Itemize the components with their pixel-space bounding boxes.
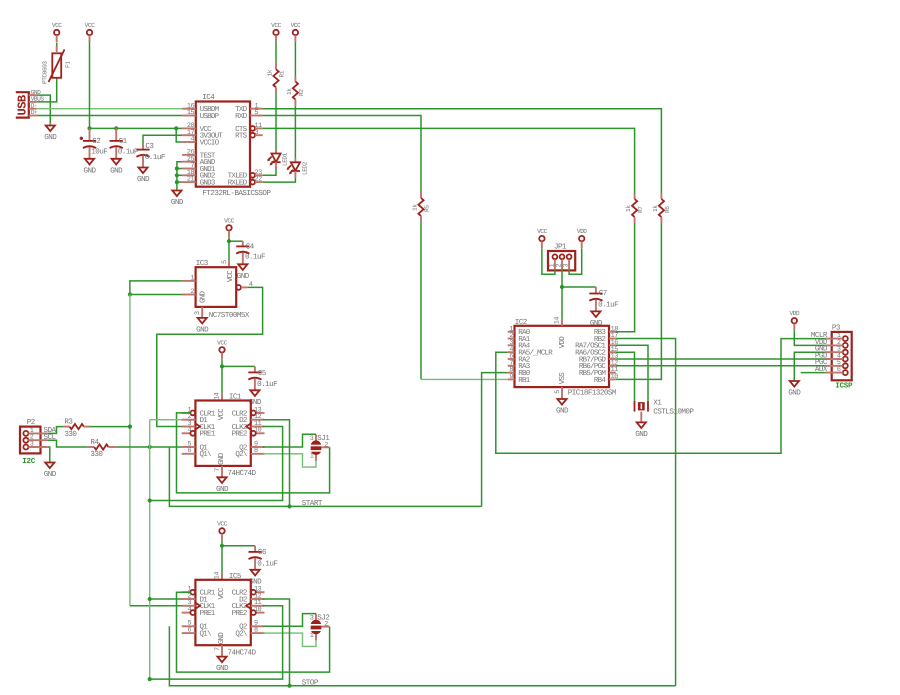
junction IC3 inputs — [128, 292, 132, 296]
wire AUX stub net — [801, 372, 825, 374]
svg-text:GND: GND — [171, 198, 184, 207]
svg-text:PRE2: PRE2 — [232, 430, 247, 439]
svg-text:10: 10 — [611, 373, 619, 381]
LED LED1 — [267, 150, 288, 170]
label net SDA — [44, 426, 57, 435]
IC5 pin 11 CLK2 — [232, 599, 265, 611]
wire P2 pin3 to ground — [47, 447, 50, 463]
svg-text:VCC: VCC — [52, 22, 62, 29]
svg-text:R7: R7 — [637, 206, 644, 213]
wire to C7 — [562, 286, 596, 288]
wire R1 to LED1 — [275, 94, 277, 150]
IC2 pin 13 RB7/PGD — [579, 353, 618, 365]
IC1 pin 10 PRE2 — [232, 427, 265, 439]
wire IC1 D2 to START net — [263, 420, 290, 507]
supply VCC at JP1 — [537, 228, 547, 248]
svg-text:LED2: LED2 — [301, 161, 308, 175]
IC5 pin 3 CLK1 — [182, 599, 216, 611]
wire JP1 pin2 to PIC VDD — [561, 270, 563, 319]
wire VDD to JP1 pin3 — [569, 248, 582, 274]
svg-text:Q2\: Q2\ — [235, 450, 248, 459]
wire IC5 Q2 to SJ2 pad3 — [263, 614, 316, 627]
junction JP1/C7 — [560, 285, 564, 289]
svg-text:C6: C6 — [258, 548, 267, 557]
svg-text:3: 3 — [563, 264, 571, 268]
wire MCLR net — [496, 339, 825, 454]
svg-text:GND: GND — [110, 166, 123, 175]
IC4 pin 22 RXLED — [228, 176, 263, 188]
svg-text:1k: 1k — [625, 205, 632, 212]
svg-text:0.1uF: 0.1uF — [598, 300, 619, 309]
ground group wires at IC4 (AGND GND1 GND2 GND3) — [177, 162, 182, 191]
ground GND at P2 — [44, 463, 57, 480]
svg-text:9: 9 — [509, 373, 513, 381]
IC1 pin 5 Q1 — [182, 440, 209, 452]
IC2 pin 10 RB4 — [594, 373, 618, 385]
svg-text:USBDP: USBDP — [200, 112, 220, 121]
IC U-IC5 74HC74 box — [195, 572, 256, 658]
ground GND at C2 — [83, 159, 96, 176]
svg-text:Q1\: Q1\ — [200, 630, 213, 639]
svg-text:VCC: VCC — [217, 339, 227, 346]
ground GND at IC2 — [556, 399, 569, 416]
label net SCL — [44, 433, 57, 442]
svg-text:0.1uF: 0.1uF — [257, 560, 278, 569]
ground GND at USB — [44, 123, 57, 143]
IC4 pin 23 TXLED — [228, 169, 263, 181]
svg-text:R1: R1 — [279, 70, 286, 77]
svg-text:Q1\: Q1\ — [200, 450, 213, 459]
IC4 pin 5 RXD — [235, 109, 263, 121]
svg-text:X1: X1 — [653, 399, 662, 407]
IC U-IC3 NC7ST00 box — [194, 259, 250, 320]
svg-text:GND: GND — [556, 407, 569, 416]
svg-text:PTC0603: PTC0603 — [42, 61, 49, 84]
solder jumper SJ1 — [309, 434, 330, 461]
svg-text:8: 8 — [254, 627, 258, 635]
svg-text:5: 5 — [554, 390, 562, 394]
solder jumper SJ2 — [309, 614, 330, 641]
svg-text:10: 10 — [254, 606, 262, 614]
svg-text:VDD: VDD — [789, 310, 799, 317]
IC4 pin 26 TEST — [182, 149, 216, 161]
IC2 pin 12 RB6/PGC — [579, 359, 618, 371]
IC1 pin 1 CLR1 — [182, 406, 216, 418]
svg-text:10uF: 10uF — [91, 148, 108, 157]
IC5 pin 5 Q1 — [182, 620, 209, 632]
IC1 pin 2 D1 — [182, 413, 209, 425]
svg-text:GND3: GND3 — [200, 179, 216, 188]
wire R5 to PIC RB1 (pale) — [421, 222, 508, 379]
svg-text:R5: R5 — [424, 205, 431, 212]
wire STOP net — [169, 339, 675, 686]
svg-text:GND: GND — [83, 166, 96, 175]
svg-text:0.1uF: 0.1uF — [145, 153, 166, 162]
IC4 pin 21 GND3 — [182, 176, 216, 188]
svg-text:3: 3 — [310, 435, 314, 443]
svg-text:VCC: VCC — [224, 217, 234, 224]
wire START net — [169, 373, 507, 507]
junction VCC/C1 — [114, 126, 118, 130]
wire IC3 output to IC1 CLK1 — [157, 287, 263, 426]
svg-text:GND: GND — [137, 175, 150, 184]
IC2 pin 9 RB1 — [508, 373, 531, 385]
IC5 pin 13 CLR2 — [232, 586, 265, 598]
svg-text:1: 1 — [310, 453, 314, 461]
svg-text:3: 3 — [194, 311, 202, 315]
wire VCCIO branch — [176, 128, 182, 142]
svg-text:C2: C2 — [92, 137, 101, 146]
junction START/D2 — [287, 504, 291, 508]
svg-text:VCC: VCC — [537, 228, 547, 235]
IC2 pin 17 RB2 — [594, 332, 618, 344]
svg-text:2: 2 — [324, 441, 328, 449]
ground GND at X1 — [635, 422, 648, 439]
svg-text:14: 14 — [214, 392, 222, 400]
wire SCL to R4 — [47, 440, 88, 447]
supply VCC at R1 — [271, 22, 281, 42]
wire IC3 inputs tied — [130, 281, 182, 295]
wire R7 to PIC RB3 — [616, 223, 635, 332]
svg-text:RXLED: RXLED — [228, 180, 248, 188]
IC2 pin 3 RA4 — [508, 339, 531, 351]
wire R4 to IC1 Q1 row — [116, 446, 181, 448]
svg-text:PRE2: PRE2 — [232, 609, 247, 618]
IC2 pin 8 RB0 — [508, 366, 531, 378]
svg-text:IC3: IC3 — [196, 259, 209, 268]
IC4 pin 17 3V3OUT — [182, 129, 223, 141]
svg-text:22: 22 — [255, 176, 263, 184]
svg-text:PIC18F1320SM: PIC18F1320SM — [568, 389, 617, 398]
wire IC5 Q2-bar to SJ2 pad1 (pale) — [263, 633, 316, 646]
IC2 pin 5 VSS stub — [561, 387, 563, 399]
wire net TXD to R6 — [263, 109, 662, 193]
IC1 pin 8 Q2\ — [235, 447, 264, 459]
svg-text:3: 3 — [310, 614, 314, 622]
svg-text:AUX: AUX — [815, 366, 828, 374]
svg-text:R3: R3 — [64, 418, 73, 427]
wire 3V3OUT to C3 — [143, 135, 182, 144]
junction VCC/C4 — [227, 239, 231, 243]
IC2 pin 6 RA2 — [508, 353, 530, 365]
wire VCC rail vertical and to IC4 pin20 — [90, 42, 183, 128]
IC4 pin 3 RTS — [235, 129, 263, 141]
ground GND at C4 — [237, 264, 250, 281]
IC5 pin 2 D1 — [182, 592, 209, 604]
LED LED2 — [287, 159, 309, 178]
wire VCC to IC5 pin14 — [221, 540, 223, 579]
svg-text:Q2\: Q2\ — [235, 630, 248, 639]
svg-text:14: 14 — [214, 572, 222, 580]
svg-text:4: 4 — [191, 136, 195, 144]
connector P3 ICSP — [811, 324, 853, 391]
wire IC1 CLK2 to SCL net — [150, 427, 283, 501]
wire P3 pin3 to ground — [794, 352, 825, 381]
svg-text:1k: 1k — [286, 88, 293, 95]
IC2 pin 14 VDD stub — [561, 319, 563, 326]
ground GND at C3 — [137, 168, 150, 185]
IC4 pin 20 VCC — [182, 122, 212, 134]
resistor R4 330 — [88, 439, 117, 459]
junction GND3 — [175, 180, 179, 184]
supply VDD at P3 — [789, 310, 799, 330]
svg-text:2: 2 — [324, 621, 328, 629]
wire to C4 — [229, 240, 243, 242]
svg-text:330: 330 — [90, 450, 103, 459]
capacitor C5 0.1uF — [248, 366, 278, 390]
junction VCC/C5 — [220, 364, 224, 368]
junction GND1 — [175, 166, 179, 170]
svg-text:C7: C7 — [599, 289, 607, 298]
wire VCC to JP1 pin1 — [542, 248, 555, 274]
svg-text:R6: R6 — [664, 206, 671, 213]
wire OSC2 to X1 — [616, 352, 635, 401]
junction STOP/D2 — [287, 684, 291, 688]
capacitor C1 0.1uF — [110, 128, 139, 158]
svg-text:74HC74D: 74HC74D — [228, 648, 257, 657]
svg-text:14: 14 — [553, 317, 561, 325]
supply VDD at JP1 — [577, 228, 587, 248]
svg-text:1k: 1k — [412, 204, 419, 211]
wire VCC to IC1 pin14 — [221, 359, 223, 400]
wire PGC net — [616, 365, 825, 367]
svg-text:GND: GND — [44, 470, 57, 479]
wire to C6 — [222, 545, 255, 547]
svg-text:1k: 1k — [652, 205, 659, 212]
IC5 pin 8 Q2\ — [235, 627, 264, 639]
junction V2/route500 — [148, 498, 152, 502]
wire VDD to P3 pin2 — [794, 330, 825, 345]
connector USB — [16, 89, 45, 118]
svg-text:15: 15 — [187, 109, 195, 117]
resistor R1 1k — [267, 42, 286, 94]
svg-text:GND: GND — [44, 133, 57, 142]
svg-text:6: 6 — [837, 366, 841, 374]
supply VCC at R2 — [291, 22, 301, 42]
svg-text:21: 21 — [187, 176, 195, 184]
resistor R3 330 — [63, 418, 90, 439]
svg-text:VCCIO: VCCIO — [200, 138, 220, 147]
svg-text:VSS: VSS — [558, 372, 567, 385]
capacitor C3 0.1uF — [136, 142, 165, 168]
IC1 GND stub and ground — [216, 466, 229, 494]
IC5 GND stub and ground — [216, 645, 229, 673]
svg-text:ICSP: ICSP — [835, 382, 853, 391]
wire net CTS to R7 — [263, 128, 635, 193]
wire IC1 Q2 to SJ1 pad3 — [263, 434, 316, 447]
junction VCC/C2 — [87, 126, 91, 130]
junction VCC/C6 — [220, 544, 224, 548]
svg-text:I2C: I2C — [22, 457, 36, 466]
capacitor C7 0.1uF — [589, 287, 619, 311]
svg-text:5: 5 — [221, 260, 229, 264]
connector P2 I2C — [20, 418, 47, 466]
resonator X1 CSTLS10M0P — [635, 399, 695, 422]
wire IC5 CLK2 to SCL net — [150, 606, 283, 679]
svg-text:4: 4 — [188, 606, 192, 614]
svg-text:0.1uF: 0.1uF — [257, 380, 278, 389]
svg-text:VCC: VCC — [217, 520, 227, 527]
wire net RXD to R5 — [263, 116, 421, 193]
svg-text:3: 3 — [30, 440, 34, 448]
IC3 pin 3 GND stub — [201, 307, 203, 318]
IC1 pin 3 CLK1 — [182, 420, 216, 432]
svg-text:STOP: STOP — [302, 679, 319, 688]
svg-text:VCC: VCC — [217, 408, 226, 421]
svg-text:GND: GND — [217, 632, 226, 645]
svg-text:R4: R4 — [90, 439, 99, 447]
wire V1 SDA-inverted down to IC5 CLK1 (pale) — [130, 295, 182, 606]
svg-text:GND: GND — [237, 272, 250, 281]
svg-text:VCC: VCC — [85, 22, 95, 29]
supply VCC at IC3 — [224, 217, 234, 237]
wire V2 SCL vertical (pale) — [150, 420, 182, 679]
svg-text:IC2: IC2 — [515, 318, 528, 327]
IC4 pin 18 GND2 — [182, 169, 215, 181]
svg-text:0.1uF: 0.1uF — [245, 253, 266, 262]
svg-text:VCC: VCC — [271, 22, 281, 29]
svg-text:1: 1 — [310, 632, 314, 640]
junction R4/V2 — [148, 445, 152, 449]
svg-text:RB4: RB4 — [594, 377, 607, 385]
IC2 pin 7 RA3 — [508, 359, 531, 371]
IC3 pin 4 output — [236, 281, 253, 290]
svg-text:C5: C5 — [258, 369, 267, 378]
capacitor C2 10uF — [80, 128, 109, 158]
wire LED1 to pin23 — [263, 170, 276, 176]
IC4 pin 1 TXD — [235, 102, 263, 114]
IC5 pin 9 Q2 — [239, 620, 264, 632]
svg-text:1k: 1k — [267, 69, 274, 76]
label net STOP — [302, 679, 319, 688]
wire VBUS to fuse F1 — [37, 78, 57, 102]
svg-text:GND: GND — [788, 389, 801, 398]
junction V2/IC5-D1 — [148, 597, 152, 601]
wire net D- (pale) — [37, 108, 182, 110]
IC U-IC1 74HC74 box — [195, 392, 256, 478]
wire LED2 to pin22 — [263, 178, 296, 182]
svg-text:FT232RL-BASICSSOP: FT232RL-BASICSSOP — [202, 189, 271, 198]
IC5 clock marks — [195, 603, 250, 609]
IC1 pin 6 Q1\ — [182, 447, 212, 459]
label net START — [302, 499, 323, 508]
IC U-IC2 PIC18F1320 box — [515, 317, 617, 398]
resistor R7 1k — [625, 193, 644, 223]
IC1 pin 4 PRE1 — [182, 427, 216, 439]
junction R3/V1 — [128, 425, 132, 429]
IC4 pin 11 CTS — [235, 122, 263, 134]
IC4 pin 4 VCCIO — [182, 136, 220, 148]
IC4 pin 7 GND1 — [182, 162, 216, 174]
wire PGD net — [616, 358, 825, 360]
ground GND at P3 — [788, 381, 801, 398]
IC U-IC4 FT232RL box — [196, 93, 272, 198]
IC1 clock marks — [195, 424, 250, 430]
svg-text:VCC: VCC — [226, 270, 235, 283]
IC2 pin 4 RA5/_MCLR — [508, 346, 554, 358]
wire IC5 D1 from V2 — [150, 598, 182, 600]
svg-text:2: 2 — [190, 288, 194, 296]
svg-text:USB: USB — [16, 95, 30, 115]
wire R3 to V1 — [90, 426, 130, 428]
junction V2 end — [148, 677, 152, 681]
wire VCC to IC3 pin5 — [228, 237, 230, 267]
svg-text:START: START — [302, 499, 323, 508]
ground GND at C1 — [110, 159, 123, 176]
wire F1 to VCC — [56, 43, 58, 47]
svg-text:GND: GND — [217, 452, 226, 465]
junction GND2 — [175, 173, 179, 177]
IC1 pin 12 D2 — [239, 413, 264, 425]
svg-text:C4: C4 — [246, 242, 255, 251]
svg-text:CSTLS10M0P: CSTLS10M0P — [653, 407, 694, 416]
svg-text:GND: GND — [196, 326, 209, 335]
IC1 pin 13 CLR2 — [232, 406, 265, 418]
IC3 pin 2 — [182, 288, 196, 296]
capacitor C6 0.1uF — [249, 546, 279, 570]
svg-text:5: 5 — [255, 109, 259, 117]
IC2 pin 2 RA1 — [508, 332, 531, 344]
IC2 pin 16 RA7/OSC1 — [575, 339, 618, 351]
IC5 pin 1 CLR1 — [182, 586, 216, 598]
wire IC1 Q2-bar to SJ1 pad1 (pale) — [263, 454, 316, 467]
IC2 pin 11 RB5/PGM — [579, 366, 618, 378]
svg-text:74HC74D: 74HC74D — [228, 469, 257, 478]
svg-text:RXD: RXD — [235, 113, 248, 121]
svg-text:7: 7 — [214, 468, 222, 472]
IC2 pin 15 RA6/OSC2 — [575, 346, 618, 358]
supply VCC rail — [85, 22, 95, 42]
IC1 pin 11 CLK2 — [232, 420, 265, 432]
svg-text:330: 330 — [64, 430, 77, 439]
wire SJ1 pad2 to IC1 CLR1 — [177, 413, 330, 493]
IC4 pin 25 AGND — [182, 155, 216, 167]
IC2 pin 1 RA0 — [508, 325, 531, 337]
fuse F1 PTC0603 — [42, 46, 72, 84]
jumper JP1 — [548, 244, 575, 271]
IC5 pin 12 D2 — [239, 592, 264, 604]
IC1 pin 9 Q2 — [239, 440, 264, 452]
wire OSC1 to X1 — [616, 345, 648, 401]
wire to C5 — [222, 365, 255, 367]
svg-text:IC4: IC4 — [202, 93, 215, 102]
svg-text:GND: GND — [635, 430, 648, 439]
svg-text:R2: R2 — [298, 89, 305, 96]
svg-text:RTS: RTS — [235, 132, 248, 141]
svg-text:8: 8 — [254, 447, 258, 455]
svg-text:7: 7 — [214, 647, 222, 651]
IC4 pin 15 USBDP — [182, 109, 220, 121]
svg-text:VDD: VDD — [577, 228, 587, 235]
supply VCC at IC1 — [217, 339, 227, 359]
svg-text:VCC: VCC — [217, 587, 226, 600]
svg-text:RB1: RB1 — [518, 377, 531, 385]
resistor R2 1k — [286, 42, 305, 106]
svg-text:LED1: LED1 — [282, 152, 289, 166]
wire R2 to LED2 — [294, 106, 296, 159]
svg-text:C3: C3 — [145, 142, 154, 151]
svg-text:IC1: IC1 — [229, 393, 242, 402]
resistor R5 1k — [412, 192, 431, 222]
IC5 pin 4 PRE1 — [182, 606, 216, 618]
IC2 pin 18 RB3 — [594, 325, 618, 337]
wire SJ2 pad2 to IC5 CLR1 — [177, 592, 330, 672]
svg-text:P2: P2 — [27, 418, 36, 427]
svg-text:PRE1: PRE1 — [200, 431, 216, 439]
svg-text:10: 10 — [254, 427, 262, 435]
svg-text:6: 6 — [188, 627, 192, 635]
wire net D+ — [37, 115, 182, 117]
